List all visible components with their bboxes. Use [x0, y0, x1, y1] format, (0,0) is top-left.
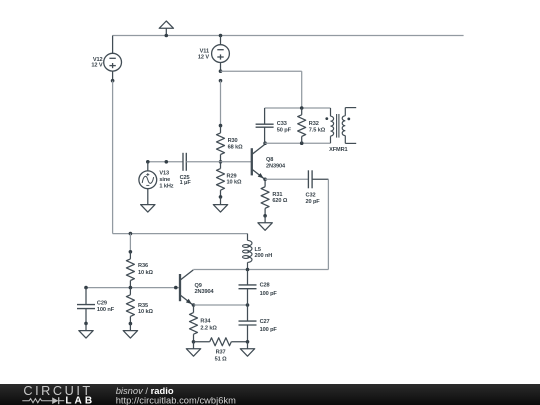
svg-text:50 pF: 50 pF	[277, 128, 292, 134]
svg-text:100 pF: 100 pF	[260, 327, 278, 333]
wire V11 to R30	[220, 81, 222, 126]
node R30 top	[219, 124, 223, 128]
wire branch to tank	[221, 70, 302, 72]
node V13 corner	[146, 160, 150, 164]
capacitor C32	[307, 178, 309, 180]
wire C32 down right side	[327, 179, 329, 269]
resistor R36	[129, 252, 131, 259]
svg-text:200 nH: 200 nH	[255, 253, 273, 259]
node below V11	[219, 79, 223, 83]
svg-text:XFMR1: XFMR1	[329, 147, 347, 153]
antenna ANT1	[165, 28, 167, 35]
node V11 bottom branch	[219, 69, 223, 73]
svg-text:2N3904: 2N3904	[266, 164, 286, 170]
node below V12	[111, 79, 115, 83]
node C28 C27 junction	[246, 303, 250, 307]
node R29 bottom	[219, 195, 223, 199]
svg-text:V11: V11	[200, 49, 209, 55]
resistor R31	[264, 179, 266, 186]
node R31 bottom	[263, 214, 267, 218]
resistor R30	[220, 126, 222, 133]
capacitor C29	[85, 288, 87, 305]
node on base wire	[165, 160, 169, 164]
svg-text:LAB: LAB	[65, 395, 95, 405]
svg-text:1 kHz: 1 kHz	[159, 183, 173, 189]
wire rail to R36	[129, 234, 131, 252]
transistor Q8	[251, 148, 253, 175]
svg-text:12 V: 12 V	[198, 55, 209, 61]
svg-text:12 V: 12 V	[91, 63, 102, 69]
ground below C27 R37	[247, 342, 249, 349]
svg-text:sine: sine	[159, 177, 170, 183]
node Q8 collector junction	[263, 141, 267, 145]
svg-text:Q9: Q9	[195, 283, 202, 289]
svg-text:2N3904: 2N3904	[195, 289, 215, 295]
node Q8 emitter junction	[263, 178, 267, 182]
voltage source V11	[220, 36, 222, 45]
transformer XFMR1 core	[336, 114, 338, 138]
resistor R34	[193, 305, 195, 313]
svg-text:51 Ω: 51 Ω	[215, 356, 227, 362]
svg-text:C33: C33	[277, 121, 287, 127]
svg-text:Q8: Q8	[266, 157, 273, 163]
wire top antenna rail	[113, 35, 464, 37]
transformer XFMR1 secondary phase dot	[347, 118, 350, 121]
svg-text:620 Ω: 620 Ω	[272, 198, 287, 204]
svg-text:R31: R31	[272, 192, 282, 198]
svg-text:R35: R35	[138, 303, 148, 309]
ground below R35	[129, 324, 131, 331]
voltage source V13 sine	[147, 162, 149, 171]
svg-text:V13: V13	[159, 170, 169, 176]
ground below R31	[264, 216, 266, 223]
voltage source V12	[112, 36, 114, 54]
footer bar	[0, 384, 540, 405]
node Q9 emitter junction	[192, 303, 196, 307]
wire bottom-left rail	[113, 233, 248, 235]
wire C25 to Q8 base	[186, 161, 252, 163]
ground below V13	[147, 189, 149, 205]
node R35 bottom	[129, 322, 133, 326]
svg-text:C32: C32	[306, 192, 316, 198]
node C29 bottom	[84, 322, 88, 326]
capacitor C27	[247, 305, 249, 321]
node V11 top junction	[219, 34, 223, 38]
node Q8 base rail at R30/R29	[219, 160, 223, 164]
transistor Q9	[179, 274, 181, 301]
svg-text:R36: R36	[138, 263, 148, 269]
svg-text:C28: C28	[260, 283, 270, 289]
wire Q9 emitter to C28	[194, 304, 248, 306]
ground below R34	[193, 342, 195, 349]
node R34 bottom junction	[192, 340, 196, 344]
node antenna junction	[165, 34, 169, 38]
capacitor C25	[182, 161, 184, 163]
wire V13 to C25	[148, 161, 183, 163]
inductor L5	[247, 234, 249, 241]
svg-text:100 nF: 100 nF	[97, 307, 115, 313]
svg-text:7.5 kΩ: 7.5 kΩ	[309, 128, 326, 134]
wire tank bottom rail	[265, 142, 331, 144]
svg-text:C27: C27	[260, 319, 270, 325]
svg-text:100 pF: 100 pF	[260, 291, 278, 297]
node Q9 base	[174, 286, 178, 290]
svg-text:10 kΩ: 10 kΩ	[138, 270, 153, 276]
svg-text:R30: R30	[228, 138, 238, 144]
transformer XFMR1 primary	[330, 108, 332, 116]
wire Q8 emitter to C32	[265, 178, 308, 180]
svg-text:R32: R32	[309, 121, 319, 127]
svg-text:http://circuitlab.com/cwbj6km: http://circuitlab.com/cwbj6km	[116, 395, 236, 405]
capacitor C28	[247, 270, 249, 285]
ground below C29	[85, 323, 87, 330]
svg-text:R34: R34	[200, 319, 211, 325]
node R35 R36 junction	[129, 286, 133, 290]
wire left vertical from V12	[112, 81, 114, 234]
svg-text:2.2 kΩ: 2.2 kΩ	[200, 325, 217, 331]
svg-text:R37: R37	[216, 349, 226, 355]
wire Q9 collector rail	[193, 269, 328, 271]
capacitor C33	[264, 108, 266, 124]
node R36 top	[129, 250, 133, 254]
ground below R29	[220, 197, 222, 205]
resistor R35	[129, 288, 131, 295]
node R36 rail junction	[129, 232, 133, 236]
svg-text:1 μF: 1 μF	[180, 180, 192, 186]
wire tank top rail	[265, 107, 331, 109]
transformer XFMR1 primary phase dot	[325, 117, 328, 120]
node C29 top	[84, 286, 88, 290]
svg-text:C29: C29	[97, 301, 107, 307]
node R32 bottom junction	[300, 141, 304, 145]
transformer XFMR1 secondary	[345, 107, 356, 109]
svg-text:10 kΩ: 10 kΩ	[138, 309, 153, 315]
node C27 R37 junction	[246, 340, 250, 344]
svg-text:10 kΩ: 10 kΩ	[227, 179, 242, 185]
svg-text:20 pF: 20 pF	[306, 199, 321, 205]
svg-text:68 kΩ: 68 kΩ	[228, 144, 243, 150]
resistor R29	[220, 162, 222, 169]
logo resistor-diode squiggle	[22, 397, 64, 404]
resistor R32	[301, 108, 303, 115]
node L5 bottom junction	[246, 268, 250, 272]
wire C29 to Q9 base rail	[86, 287, 180, 289]
resistor R37	[194, 341, 210, 343]
node R32 top junction	[300, 106, 304, 110]
